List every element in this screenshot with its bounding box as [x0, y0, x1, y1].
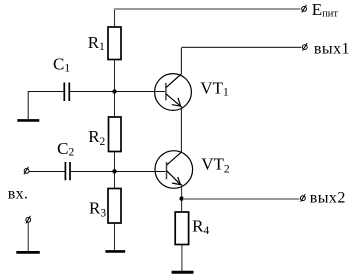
resistor R3 — [108, 189, 121, 224]
ground under C1 — [17, 119, 39, 122]
wire R4 to ground — [181, 245, 183, 272]
node C junction dot — [179, 196, 183, 200]
wire node C to output 2 — [183, 198, 299, 200]
capacitor C2 — [65, 162, 70, 180]
transistor VT2 — [155, 151, 193, 189]
input ground terminal — [26, 216, 31, 224]
svg-text:вых2: вых2 — [310, 190, 346, 207]
wire input to C2 — [29, 171, 65, 173]
wire C1 left lead and ground riser — [28, 92, 64, 120]
terminal E supply — [302, 5, 307, 13]
wire input ground riser — [27, 222, 29, 251]
wire R2 bottom to R3 top through node B — [114, 152, 116, 189]
terminal вых1 — [302, 43, 307, 51]
svg-text:вых1: вых1 — [314, 41, 350, 58]
node A junction dot — [112, 89, 116, 93]
terminal вых2 — [301, 194, 306, 202]
wire VT1 collector to output 1 — [181, 47, 301, 74]
wire R3 to ground — [114, 223, 116, 250]
ground under R4 — [172, 271, 194, 274]
svg-text:вх.: вх. — [8, 186, 29, 203]
ground for input — [16, 251, 40, 254]
wire C1 to VT1 base — [70, 91, 165, 93]
capacitor C1 — [64, 83, 69, 102]
transistor VT1 — [155, 74, 192, 111]
resistor R4 — [175, 212, 188, 245]
ground under R3 — [105, 250, 125, 253]
resistor R2 — [109, 117, 122, 152]
wire VT1 emitter to VT2 collector — [180, 106, 182, 152]
wire top rail from R1 to E supply terminal — [114, 9, 116, 27]
wire C2 to VT2 base — [71, 171, 166, 173]
node B junction dot — [112, 169, 116, 173]
resistor R1 — [108, 27, 121, 60]
input terminal — [24, 167, 29, 175]
wire R1 bottom to R2 top through node A — [114, 60, 116, 118]
wire VT2 emitter to node C and R4 — [181, 184, 183, 212]
